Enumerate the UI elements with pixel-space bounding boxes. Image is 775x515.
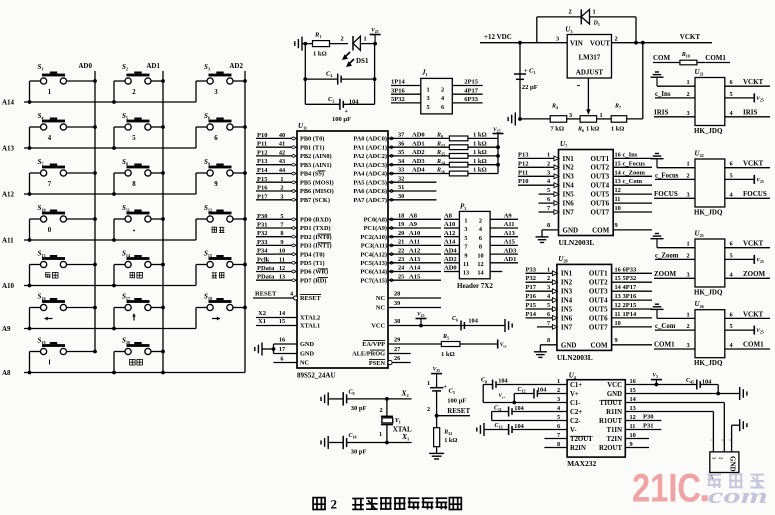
pin 4 ZOOM xyxy=(725,270,770,279)
pin 11 AD2 xyxy=(444,256,469,268)
svg-text:17: 17 xyxy=(279,346,285,353)
svg-text:30: 30 xyxy=(398,193,404,200)
pin 5 A12 xyxy=(444,230,468,242)
svg-text:44: 44 xyxy=(279,167,286,174)
svg-text:13: 13 xyxy=(615,178,621,185)
svg-text:11: 11 xyxy=(615,196,621,203)
pin 6 NC xyxy=(274,355,310,366)
pin 5 power xyxy=(725,323,764,335)
pin 13 PData -> PD7 (RD) xyxy=(256,274,328,285)
capacitor C9 30pF xyxy=(321,389,412,412)
svg-text:VOUT: VOUT xyxy=(590,39,610,47)
svg-text:33: 33 xyxy=(398,167,404,174)
svg-text:PD5 (T1): PD5 (T1) xyxy=(300,260,325,267)
svg-text:PD7 (RD): PD7 (RD) xyxy=(300,277,326,284)
ground xyxy=(534,345,547,358)
svg-text:7: 7 xyxy=(547,205,550,212)
svg-text:C45: C45 xyxy=(686,378,694,385)
label HK_JDQ xyxy=(694,359,723,367)
svg-text:1 kΩ: 1 kΩ xyxy=(611,126,624,133)
pin 4 IN4 net P16 xyxy=(526,293,573,304)
svg-text:2: 2 xyxy=(687,91,690,98)
svg-text:1 kΩ: 1 kΩ xyxy=(473,132,487,139)
svg-text:OUT2: OUT2 xyxy=(589,279,608,287)
MCU U11 89S52_24AU xyxy=(297,122,388,380)
svg-text:7: 7 xyxy=(547,320,550,327)
svg-text:6: 6 xyxy=(441,104,444,111)
wire ADJ xyxy=(577,78,591,115)
node AD2 column xyxy=(229,62,245,373)
pin 10 AD3 xyxy=(477,247,518,259)
relay U21 HK_JDQ xyxy=(695,68,725,126)
svg-text:P11: P11 xyxy=(518,169,528,176)
svg-text:29: 29 xyxy=(394,336,400,343)
capacitor C5 100uF xyxy=(427,380,466,416)
svg-text:X2: X2 xyxy=(258,310,266,317)
switch S2 key 2 xyxy=(112,63,165,104)
node P31 xyxy=(625,423,661,430)
pin 12 AD1 xyxy=(477,256,518,268)
driver U28 ULN2003L xyxy=(557,255,612,362)
svg-text:DS1: DS1 xyxy=(356,57,369,65)
wire row A8 xyxy=(2,369,245,377)
node X2 xyxy=(385,388,409,400)
svg-text:OUT7: OUT7 xyxy=(591,208,610,216)
power V25 xyxy=(431,366,442,383)
connector P3 Header 7X2 xyxy=(457,203,493,291)
pin 7 P31 -> PD1 (TXD) xyxy=(256,222,331,233)
resistor R15 1k xyxy=(436,149,498,158)
ground xyxy=(508,113,522,126)
svg-text:AD2: AD2 xyxy=(412,149,425,156)
pin 7 IN7 xyxy=(539,205,575,216)
svg-text:PA0 (ADC0): PA0 (ADC0) xyxy=(353,136,387,143)
pin 14 XTAL2 xyxy=(256,310,320,322)
pin 28 NC xyxy=(376,291,441,303)
svg-text:PD6 (WR): PD6 (WR) xyxy=(300,269,328,276)
svg-text:21: 21 xyxy=(398,239,404,246)
svg-text:34: 34 xyxy=(398,158,405,165)
capacitor C10 30pF xyxy=(321,433,412,456)
svg-text:C1+: C1+ xyxy=(570,382,582,389)
switch S16 key ← xyxy=(28,293,97,331)
svg-text:AD4: AD4 xyxy=(444,247,457,254)
pin 12 OUT5 xyxy=(591,187,652,198)
switch S17 key ↑ xyxy=(112,293,165,331)
pin 3 IN3 net P11 xyxy=(518,169,574,180)
svg-text:104: 104 xyxy=(468,318,478,325)
svg-text:8: 8 xyxy=(547,222,550,229)
svg-text:COM1: COM1 xyxy=(654,341,675,349)
pin 6 V- xyxy=(557,423,577,434)
svg-text:41: 41 xyxy=(279,141,285,148)
svg-text:2: 2 xyxy=(427,406,430,413)
svg-text:A13: A13 xyxy=(2,145,15,153)
svg-text:EA/VPP: EA/VPP xyxy=(362,341,385,348)
svg-text:GND: GND xyxy=(300,341,314,348)
svg-text:11: 11 xyxy=(463,261,469,268)
switch S18 key → xyxy=(196,293,247,329)
resistor R22 1k xyxy=(434,416,458,454)
svg-text:1: 1 xyxy=(48,89,52,96)
pin 2 c_Focus xyxy=(655,172,695,179)
svg-text:2: 2 xyxy=(441,87,444,94)
svg-text:0: 0 xyxy=(48,227,52,234)
svg-text:5: 5 xyxy=(132,135,136,142)
svg-text:100 µF: 100 µF xyxy=(447,398,466,405)
pin 3 IRIS xyxy=(654,108,695,117)
svg-text:C10: C10 xyxy=(349,433,357,440)
svg-text:T2OUT: T2OUT xyxy=(570,436,593,443)
svg-text:5P32: 5P32 xyxy=(623,275,637,282)
svg-text:3P16: 3P16 xyxy=(391,87,405,94)
pin 43 P13 -> PB3 (AIN1) xyxy=(256,158,332,169)
svg-text:14: 14 xyxy=(279,310,286,317)
svg-text:NC: NC xyxy=(376,295,386,302)
svg-text:A10: A10 xyxy=(444,221,455,228)
svg-text:1: 1 xyxy=(547,151,550,158)
svg-text:PB7 (SCK): PB7 (SCK) xyxy=(300,197,330,204)
svg-text:13: 13 xyxy=(463,270,469,277)
svg-text:104: 104 xyxy=(349,98,360,105)
svg-text:PD2 (INT0): PD2 (INT0) xyxy=(300,234,332,241)
ground xyxy=(651,72,696,86)
svg-text:R5: R5 xyxy=(442,334,449,341)
wire row A14 xyxy=(2,99,196,107)
svg-text:PA1 (ADC1): PA1 (ADC1) xyxy=(353,144,387,151)
pin 4 FOCUS xyxy=(725,190,770,199)
ground xyxy=(651,304,696,318)
svg-text:38: 38 xyxy=(394,318,400,325)
pin 13 R1IN xyxy=(606,405,636,416)
pin 11 OUT6 net 1P14 xyxy=(589,311,652,322)
power VCC xyxy=(303,27,380,45)
svg-text:c_Com: c_Com xyxy=(655,323,676,330)
pin 12 PData -> PD6 (WR) xyxy=(256,265,328,276)
pin 2 IN2 net P12 xyxy=(518,160,574,171)
pin 1 IN1 net P33 xyxy=(526,266,573,277)
svg-text:3: 3 xyxy=(556,36,559,43)
svg-text:P13: P13 xyxy=(518,151,529,158)
svg-text:D1: D1 xyxy=(593,21,600,28)
svg-text:OUT3: OUT3 xyxy=(589,288,608,296)
svg-text:PD4 (T0): PD4 (T0) xyxy=(300,251,325,258)
pin 6 IN6 net P14 xyxy=(526,311,573,322)
svg-text:COM1: COM1 xyxy=(705,54,726,62)
svg-text:1: 1 xyxy=(600,112,603,119)
svg-text:10: 10 xyxy=(615,205,621,212)
pin 2 IN2 net P32 xyxy=(526,275,573,286)
connector J2 serial xyxy=(710,438,739,482)
pin 14 OUT3 net c_Zoom xyxy=(591,169,652,180)
pin 6 A13 xyxy=(479,230,518,242)
svg-text:+: + xyxy=(444,385,448,391)
svg-text:NC: NC xyxy=(376,305,386,312)
svg-text:A9: A9 xyxy=(2,325,11,333)
svg-text:2: 2 xyxy=(569,9,572,16)
pin 8 GND xyxy=(540,337,576,350)
svg-text:R14: R14 xyxy=(436,159,445,166)
node AD1 column xyxy=(146,62,165,374)
svg-text:42: 42 xyxy=(279,149,285,156)
svg-text:100 µF: 100 µF xyxy=(332,116,351,123)
pin 35 PA2 net AD2 xyxy=(353,149,449,160)
svg-text:ZOOM: ZOOM xyxy=(654,270,677,278)
svg-text:c_Ins: c_Ins xyxy=(623,151,638,158)
svg-text:16: 16 xyxy=(615,266,621,273)
svg-text:P33: P33 xyxy=(526,266,537,273)
svg-text:ADJUST: ADJUST xyxy=(576,69,604,77)
svg-text:PB2 (AIN0): PB2 (AIN0) xyxy=(300,153,332,160)
driver U7 ULN2003L xyxy=(559,140,614,247)
svg-text:IN6: IN6 xyxy=(561,314,573,322)
svg-text:6: 6 xyxy=(479,235,482,242)
pin 23 PC5 net A13 xyxy=(360,256,441,267)
pin 40 P10 -> PB0 (T0) xyxy=(256,132,324,143)
svg-text:A10: A10 xyxy=(409,230,420,237)
svg-text:6: 6 xyxy=(547,311,550,318)
ground xyxy=(429,453,444,459)
svg-text:8: 8 xyxy=(547,337,550,344)
svg-text:A14: A14 xyxy=(409,265,421,272)
node RESET xyxy=(427,406,470,418)
pin 14 OUT3 net 4P17 xyxy=(589,284,652,295)
svg-text:c_Zoom: c_Zoom xyxy=(623,169,646,176)
svg-text:PB0 (T0): PB0 (T0) xyxy=(300,136,324,143)
svg-text:37: 37 xyxy=(398,132,404,139)
pin 8 stub xyxy=(544,447,567,449)
svg-text:A12: A12 xyxy=(409,247,420,254)
svg-text:15: 15 xyxy=(615,275,621,282)
svg-text:C12: C12 xyxy=(518,387,526,394)
pin 20 PC2 net A10 xyxy=(360,230,441,241)
svg-text:25: 25 xyxy=(398,273,404,280)
ground xyxy=(732,419,747,452)
svg-text:P14: P14 xyxy=(526,311,537,318)
svg-text:Vs+: Vs+ xyxy=(499,394,506,400)
switch S5 key 5 xyxy=(112,112,165,150)
diode D1 xyxy=(537,9,638,45)
svg-text:C2+: C2+ xyxy=(570,409,582,416)
pin 11 OUT6 xyxy=(591,196,652,207)
watermark 21IC.com xyxy=(632,467,768,511)
svg-text:PB3 (AIN1): PB3 (AIN1) xyxy=(300,162,332,169)
svg-text:30 pF: 30 pF xyxy=(351,449,367,456)
svg-text:ULN2003L: ULN2003L xyxy=(559,238,595,247)
svg-text:9: 9 xyxy=(464,252,467,259)
svg-text:1 kΩ: 1 kΩ xyxy=(473,149,487,156)
svg-text:35: 35 xyxy=(398,149,404,156)
svg-text:R15: R15 xyxy=(436,150,445,157)
svg-text:P17: P17 xyxy=(526,284,537,291)
svg-text:PA5 (ADC5): PA5 (ADC5) xyxy=(353,179,387,186)
svg-text:104: 104 xyxy=(537,387,547,394)
switch S9 key 9 xyxy=(196,158,247,194)
svg-text:OUT2: OUT2 xyxy=(591,164,610,172)
svg-text:27: 27 xyxy=(394,346,400,353)
svg-text:12: 12 xyxy=(279,265,285,272)
pin 2 2P15 xyxy=(441,79,483,94)
svg-text:VCKT: VCKT xyxy=(743,310,764,318)
svg-text:R9: R9 xyxy=(436,133,443,140)
svg-text:RESET: RESET xyxy=(300,295,321,302)
svg-text:AD3: AD3 xyxy=(504,247,517,254)
svg-text:IN3: IN3 xyxy=(563,173,575,181)
svg-text:30 pF: 30 pF xyxy=(351,405,367,412)
switch S4 key 4 xyxy=(28,112,97,150)
svg-text:2: 2 xyxy=(687,252,690,259)
svg-text:1: 1 xyxy=(379,431,382,438)
svg-text:PD0 (RXD): PD0 (RXD) xyxy=(300,217,331,224)
svg-text:2P15: 2P15 xyxy=(464,79,478,86)
pin 7 stub xyxy=(544,438,567,440)
svg-text:104: 104 xyxy=(514,423,524,430)
svg-text:IN1: IN1 xyxy=(563,155,575,163)
svg-text:PA2 (ADC2): PA2 (ADC2) xyxy=(353,153,387,160)
switch S10 key 0 xyxy=(28,204,97,242)
svg-text:ZOOM: ZOOM xyxy=(743,270,766,278)
svg-text:40: 40 xyxy=(279,132,285,139)
svg-text:PA7 (ADC7): PA7 (ADC7) xyxy=(353,197,387,204)
svg-text:ULN2003L: ULN2003L xyxy=(557,353,593,362)
svg-text:32: 32 xyxy=(398,175,404,182)
svg-text:VCC: VCC xyxy=(371,323,385,330)
svg-text:1 kΩ: 1 kΩ xyxy=(473,158,487,165)
svg-text:5: 5 xyxy=(427,104,430,111)
pin 1 C1+ xyxy=(557,378,582,389)
svg-text:XTAL2: XTAL2 xyxy=(300,315,320,322)
pin 9 COM xyxy=(592,222,652,235)
svg-text:A14: A14 xyxy=(2,99,15,107)
svg-text:AD2: AD2 xyxy=(444,256,457,263)
wire row A11 xyxy=(2,237,196,245)
svg-text:T2IN: T2IN xyxy=(607,436,623,443)
svg-text:PC6(A14): PC6(A14) xyxy=(360,269,387,276)
svg-text:13: 13 xyxy=(279,274,285,281)
svg-text:OUT1: OUT1 xyxy=(589,270,608,278)
svg-text:5: 5 xyxy=(547,187,550,194)
svg-text:14: 14 xyxy=(477,270,484,277)
svg-text:PD3 (INT1): PD3 (INT1) xyxy=(300,243,332,250)
pin 6 IN6 xyxy=(539,196,575,207)
resistor R5 1k xyxy=(441,334,507,358)
pin 14 NC xyxy=(477,270,502,277)
pin 9 AD4 xyxy=(444,247,468,259)
capacitor C2 100uF xyxy=(305,96,374,123)
resistor R9 1k xyxy=(436,132,498,141)
svg-text:1: 1 xyxy=(464,218,467,225)
capacitor C11 104 xyxy=(492,405,567,421)
svg-text:GND: GND xyxy=(729,456,737,472)
ground xyxy=(295,37,306,51)
potentiometer R6 1k xyxy=(567,112,603,133)
svg-text:1: 1 xyxy=(280,176,283,183)
pin 2 c_Zoom xyxy=(655,252,695,259)
pin 14 T1OUT xyxy=(599,396,636,407)
svg-text:c_Focus: c_Focus xyxy=(655,172,679,179)
svg-text:A13: A13 xyxy=(409,256,421,263)
pin 6 VCKT xyxy=(725,160,770,168)
svg-text:C9: C9 xyxy=(349,389,355,396)
svg-text:PC2(A10): PC2(A10) xyxy=(360,234,387,241)
pin 5 power xyxy=(725,172,764,184)
svg-text:A11: A11 xyxy=(409,239,420,246)
power V25 on VCC xyxy=(625,372,697,386)
pin 15 GND xyxy=(607,387,636,398)
svg-text:C13: C13 xyxy=(495,423,503,430)
svg-text:IN3: IN3 xyxy=(561,288,573,296)
capacitor C8 104 charge pump xyxy=(481,378,567,403)
resistor R16 1k xyxy=(436,167,498,176)
svg-text:22 µF: 22 µF xyxy=(522,84,538,91)
svg-text:6: 6 xyxy=(730,79,733,86)
svg-text:GND: GND xyxy=(561,341,577,349)
resistor R10 COM-COM1 xyxy=(653,52,730,65)
svg-text:GND: GND xyxy=(300,351,314,358)
svg-text:1: 1 xyxy=(687,311,690,318)
svg-text:5: 5 xyxy=(730,91,733,98)
svg-text:2: 2 xyxy=(132,89,136,96)
svg-text:R10: R10 xyxy=(681,52,690,59)
svg-text:7: 7 xyxy=(48,181,52,188)
svg-text:12: 12 xyxy=(615,302,621,309)
pin 10 OUT7 xyxy=(589,320,652,331)
svg-text:2: 2 xyxy=(331,496,338,511)
svg-text:R4: R4 xyxy=(551,104,558,111)
svg-text:OUT5: OUT5 xyxy=(591,191,610,199)
LED DS1 xyxy=(341,36,376,68)
svg-text:c_Ins: c_Ins xyxy=(655,91,671,98)
pin 22 PC4 net A12 xyxy=(360,247,441,258)
pin 4 COM1 xyxy=(725,341,770,350)
svg-text:28: 28 xyxy=(394,291,400,298)
svg-text:3: 3 xyxy=(687,271,690,278)
svg-text:P12: P12 xyxy=(518,160,528,167)
svg-text:PC1(A9): PC1(A9) xyxy=(364,225,387,232)
svg-text:A14: A14 xyxy=(444,239,456,246)
svg-text:10: 10 xyxy=(477,252,483,259)
pin 9 COM xyxy=(590,337,652,350)
node VCKT xyxy=(680,33,701,41)
svg-text:IN5: IN5 xyxy=(563,191,575,199)
svg-text:C6: C6 xyxy=(452,316,458,323)
svg-text:2: 2 xyxy=(547,275,550,282)
svg-text:C8: C8 xyxy=(481,378,487,385)
svg-text:104: 104 xyxy=(514,405,524,412)
pin 2 P16 -> PB6 (MISO) xyxy=(256,185,334,196)
svg-text:R13: R13 xyxy=(436,141,445,148)
svg-text:5: 5 xyxy=(730,252,733,259)
svg-text:1: 1 xyxy=(427,87,430,94)
svg-text:XTAL1: XTAL1 xyxy=(300,323,320,330)
svg-text:P31: P31 xyxy=(643,423,653,430)
pin 9 R2OUT xyxy=(599,441,633,452)
svg-text:AD0: AD0 xyxy=(412,132,425,139)
svg-text:43: 43 xyxy=(279,158,285,165)
capacitor C3 22uF xyxy=(514,43,538,119)
svg-text:AD1: AD1 xyxy=(146,62,160,70)
relay U22 HK_JDQ xyxy=(695,150,725,208)
pin 2 V+ xyxy=(557,387,579,398)
svg-text:14: 14 xyxy=(615,169,622,176)
wire T1OUT xyxy=(625,403,724,452)
svg-text:V+: V+ xyxy=(570,391,579,398)
svg-text:FOCUS: FOCUS xyxy=(654,190,678,198)
pin 8 GND xyxy=(542,222,578,235)
ground xyxy=(536,230,549,243)
pin 8 P32 -> PD2 (INT0) xyxy=(256,230,332,241)
pin 4 RESET xyxy=(253,291,321,303)
